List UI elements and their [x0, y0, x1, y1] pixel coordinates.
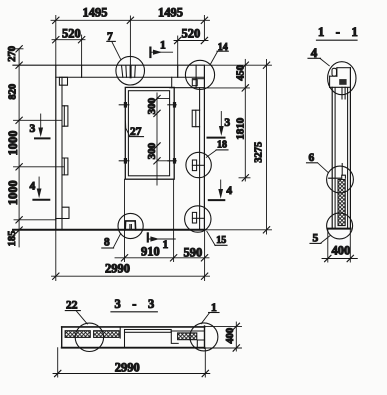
- label 6 with leader: [307, 152, 328, 172]
- svg-text:1810: 1810: [235, 117, 247, 140]
- label 7 with leader: [107, 31, 121, 59]
- section 3-3 slab outline: [62, 326, 205, 348]
- svg-text:3 - 3: 3 - 3: [115, 297, 159, 311]
- panel outline (plan view): [13, 65, 204, 230]
- dim 520 left: [52, 35, 85, 77]
- opening outer rectangle: [125, 87, 174, 179]
- svg-text:4: 4: [226, 185, 232, 197]
- svg-text:1495: 1495: [158, 6, 183, 20]
- balloon 4 circle: [328, 62, 356, 95]
- dim 300/300 inside opening: [146, 93, 176, 185]
- embedded plate mark top-right of opening: [168, 102, 176, 108]
- embedded plate mark top-left of opening: [119, 102, 129, 108]
- dim 400 (3-3 right): [205, 322, 242, 351]
- label 1 with leader (3-3): [201, 302, 219, 324]
- balloon 1 circle (3-3): [190, 323, 218, 351]
- step detail in balloon 1 (3-3 right end): [197, 340, 204, 348]
- lifting loop (bottom, plan) in balloon 8: [125, 221, 135, 230]
- left edge notch lower: [62, 158, 68, 175]
- opening inner rectangle: [128, 91, 169, 176]
- balloon 22 circle: [75, 323, 103, 351]
- label 27 with leader: [126, 121, 144, 138]
- hatched block right (3-3): [178, 333, 197, 340]
- step at end of blocks: [119, 327, 121, 338]
- svg-text:520: 520: [62, 26, 81, 40]
- middle plate (3-3): [125, 330, 172, 333]
- svg-text:520: 520: [182, 27, 201, 41]
- balloon 18 circle: [186, 152, 211, 177]
- section 1-1 title: [317, 25, 362, 40]
- svg-text:4: 4: [30, 181, 36, 193]
- svg-text:2990: 2990: [105, 262, 130, 276]
- top-left corner block: [59, 77, 67, 85]
- svg-text:2990: 2990: [115, 361, 140, 375]
- label 4 with leader: [308, 45, 329, 66]
- svg-text:3275: 3275: [254, 142, 265, 163]
- opening edge lines in 3-3: [125, 331, 205, 348]
- svg-text:300: 300: [146, 142, 158, 159]
- svg-text:1: 1: [163, 239, 169, 251]
- svg-text:910: 910: [141, 244, 160, 258]
- label 8 with leader: [102, 234, 121, 249]
- dim 520 right: [174, 36, 208, 77]
- label 18 with leader: [206, 140, 228, 158]
- bottom-left corner block: [56, 207, 69, 218]
- top dimension line 1495+1495: [51, 16, 210, 67]
- balloon 15 circle: [185, 206, 211, 232]
- svg-text:4: 4: [311, 45, 318, 60]
- label 14 with leader: [210, 42, 228, 65]
- svg-text:590: 590: [184, 245, 203, 259]
- balloon 8 circle: [118, 213, 143, 238]
- dim 400 (section 1-1): [322, 229, 357, 262]
- svg-text:400: 400: [225, 328, 236, 344]
- svg-text:5: 5: [313, 233, 319, 245]
- hatched block 2 (3-3): [94, 331, 120, 338]
- svg-text:1: 1: [160, 40, 166, 52]
- section mark 1 (bottom): [148, 233, 176, 251]
- svg-text:400: 400: [332, 243, 351, 257]
- label 15 with leader: [207, 231, 227, 246]
- right edge notch: [192, 110, 199, 127]
- section mark 4 (left): [30, 177, 50, 200]
- svg-text:22: 22: [66, 300, 78, 312]
- svg-text:6: 6: [309, 152, 315, 164]
- svg-text:300: 300: [146, 97, 158, 114]
- svg-text:270: 270: [7, 46, 18, 62]
- embedded detail in balloon 18: [192, 160, 204, 171]
- svg-text:1000: 1000: [6, 180, 20, 205]
- bottom dimension 2990: [52, 230, 210, 281]
- embedded plate mark bottom-left of opening: [119, 158, 129, 164]
- lifting loop (plan) in balloon 7: [122, 66, 136, 77]
- section mark 4 (right): [209, 180, 233, 200]
- section 3-3 title: [111, 297, 158, 312]
- section mark 3 (right): [208, 112, 231, 138]
- section mark 3 (left): [30, 114, 50, 138]
- section 1-1 bar outline: [328, 68, 351, 229]
- balloon 6 circle: [327, 166, 354, 193]
- balloon 7 circle: [116, 56, 145, 85]
- svg-text:1 - 1: 1 - 1: [318, 25, 362, 39]
- left edge notch upper: [62, 106, 68, 126]
- svg-text:450: 450: [235, 65, 246, 81]
- embedded detail in balloon 15: [192, 212, 204, 223]
- section mark 1 (top): [150, 40, 172, 57]
- svg-text:15: 15: [216, 235, 226, 246]
- balloon 14 circle: [185, 60, 214, 89]
- svg-text:18: 18: [217, 140, 227, 151]
- balloon 5 circle: [327, 213, 353, 239]
- top rail joint left: [81, 65, 83, 77]
- hatched block 1 (3-3): [65, 331, 90, 338]
- dim 2990 (3-3 bottom): [53, 348, 210, 377]
- hatched core rod in section 1-1: [329, 164, 346, 226]
- svg-text:8: 8: [104, 236, 110, 248]
- label 5 with leader: [310, 233, 330, 245]
- embedded plate mark bottom-right of opening: [168, 158, 176, 164]
- svg-text:3: 3: [224, 117, 230, 129]
- svg-text:1000: 1000: [6, 131, 20, 156]
- left dimension chain 270/820/1000/1000/185: [14, 46, 65, 247]
- bottom dimension 910/590: [115, 179, 209, 261]
- section 1-1 top detail (in balloon 4): [330, 68, 351, 99]
- embedded detail in balloon 14 (top-right corner): [192, 65, 204, 88]
- label 22 with leader: [65, 300, 87, 324]
- top rail joint right: [177, 65, 179, 77]
- svg-text:820: 820: [8, 84, 19, 100]
- svg-text:1495: 1495: [83, 6, 108, 20]
- right dimension lines 450/1810/3275: [204, 59, 271, 234]
- svg-text:185: 185: [7, 231, 18, 247]
- svg-text:3: 3: [30, 123, 36, 135]
